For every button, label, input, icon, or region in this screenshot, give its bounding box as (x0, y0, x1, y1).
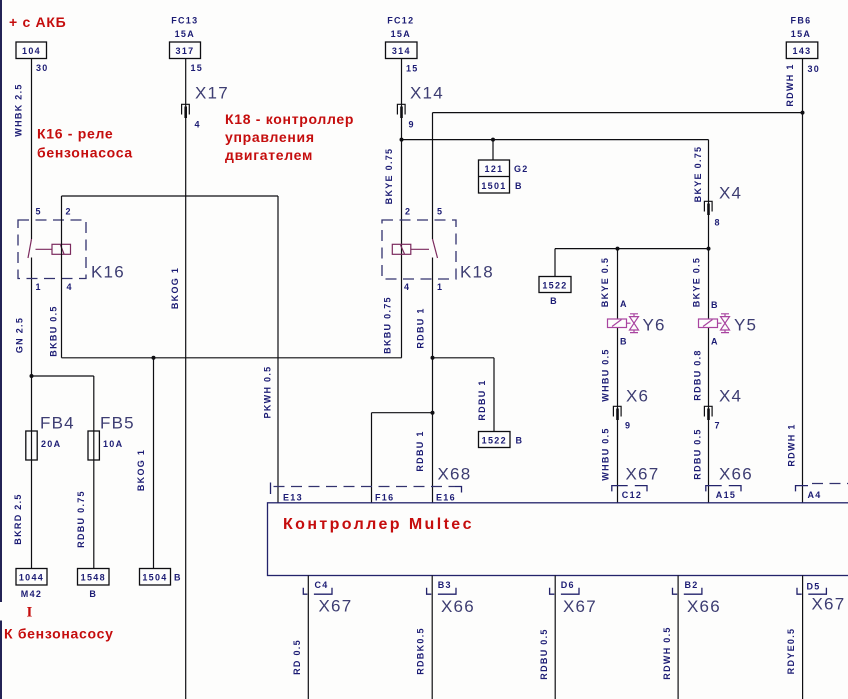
fuse FC13 15A supply box 317 (170, 16, 204, 74)
controller Multec box (268, 503, 848, 576)
svg-text:RDBU 0.5: RDBU 0.5 (693, 428, 703, 479)
svg-text:RDYE0.5: RDYE0.5 (786, 628, 796, 675)
svg-text:E16: E16 (436, 493, 456, 503)
svg-text:B: B (515, 181, 523, 191)
svg-text:A: A (620, 299, 628, 309)
svg-text:F16: F16 (375, 493, 394, 503)
svg-text:WHBU 0.5: WHBU 0.5 (601, 427, 611, 480)
page left border segment upper (0, 0, 2, 602)
pin D6 with wire RDBU 0.5 (539, 576, 597, 699)
junction Y5 branch (707, 247, 711, 251)
svg-text:WHBK 2.5: WHBK 2.5 (14, 83, 24, 136)
svg-text:7: 7 (715, 421, 721, 431)
svg-text:X4: X4 (719, 387, 742, 406)
wire RDBU 1 from K18 pin1 down to Multec E16 (415, 258, 433, 503)
svg-text:B: B (89, 589, 97, 599)
connector X6 (613, 387, 649, 431)
svg-text:G2: G2 (514, 164, 529, 174)
wire horizontal feed to K18 pin5 from RDWH node (433, 112, 803, 114)
svg-text:RDBU 0.8: RDBU 0.8 (693, 349, 703, 400)
junction Y6 branch (616, 247, 620, 251)
svg-text:15A: 15A (791, 29, 811, 39)
wire BKYE 0.75 drop to connector X4 (693, 140, 709, 503)
svg-text:C4: C4 (315, 580, 329, 590)
svg-text:I: I (27, 605, 33, 621)
pin C4 with wire RD 0.5 (292, 576, 352, 699)
svg-text:1: 1 (437, 282, 443, 292)
svg-text:1504: 1504 (142, 573, 167, 583)
svg-text:1548: 1548 (81, 573, 106, 583)
pin D5 with wire RDYE 0.5 (786, 576, 845, 699)
svg-text:RDWH 1: RDWH 1 (785, 63, 795, 106)
junction G2 branch (491, 138, 495, 142)
svg-text:FC13: FC13 (171, 16, 198, 26)
svg-text:RDWH 0.5: RDWH 0.5 (662, 626, 672, 679)
svg-text:BKYE 0.75: BKYE 0.75 (693, 146, 703, 203)
svg-text:BKYE 0.5: BKYE 0.5 (600, 257, 610, 307)
svg-text:К бензонасосу: К бензонасосу (4, 626, 114, 642)
pin A4 (796, 484, 848, 500)
wire horizontal BKYE 0.75 bus at y140 (402, 139, 709, 141)
wire PKWH 0.5 down to Multec E13 (263, 196, 279, 503)
svg-text:4: 4 (67, 282, 73, 292)
fuse FC12 15A supply box 314 (386, 16, 419, 74)
red note K16 relay (37, 126, 133, 161)
connector X14 (397, 84, 443, 130)
svg-text:FB4: FB4 (40, 414, 75, 433)
wire branch to splice 1522 upper (554, 249, 556, 277)
connector X17 (182, 84, 229, 130)
supply box 104 (pin 30) (16, 42, 49, 73)
relay K18 contact blade (433, 239, 438, 258)
svg-text:RDBU 0.5: RDBU 0.5 (539, 628, 549, 679)
svg-text:+ с АКБ: + с АКБ (9, 14, 66, 30)
connector X68 dashed boundary (271, 465, 472, 495)
svg-text:Y6: Y6 (643, 316, 666, 335)
junction X14 wire / bus (400, 138, 404, 142)
svg-text:B: B (711, 300, 719, 310)
svg-text:X66: X66 (719, 465, 753, 484)
pin B3 with wire RDBK 0.5 (416, 576, 475, 699)
svg-text:X66: X66 (441, 597, 475, 616)
svg-text:B: B (550, 296, 558, 306)
fuse FB6 15A supply box 143 (pin 30) (786, 16, 820, 75)
svg-text:1522: 1522 (542, 281, 567, 291)
injector Y6 (608, 299, 666, 347)
pin C12 (612, 486, 647, 500)
svg-text:4: 4 (404, 282, 410, 292)
wire WHBK 2.5 from 104 to relay K16 pin 5 (14, 59, 32, 240)
wire K16 pin 2 to coil / horizontal to PKWH drop (49, 196, 279, 358)
svg-text:RDBU 0.75: RDBU 0.75 (76, 490, 86, 548)
svg-text:RD 0.5: RD 0.5 (292, 639, 302, 675)
wire X14 / BKYE 0.75 vertical from 314 to K18 coil (384, 59, 402, 358)
svg-text:RDBU 1: RDBU 1 (477, 379, 487, 420)
svg-text:30: 30 (808, 64, 821, 74)
wire K18 pin5 drop (432, 113, 434, 239)
svg-text:4: 4 (195, 120, 201, 130)
svg-text:BKBU 0.5: BKBU 0.5 (49, 305, 59, 356)
svg-text:B: B (174, 573, 182, 583)
svg-text:RDWH 1: RDWH 1 (787, 423, 797, 466)
junction RDBU1 / F16 branch (431, 411, 435, 415)
junction RDBU1 / 1522 branch (431, 356, 435, 360)
svg-text:BKYE 0.75: BKYE 0.75 (384, 148, 394, 205)
ground splice box 121 / 1501 (G2) (479, 160, 529, 193)
svg-text:A: A (711, 337, 719, 347)
svg-text:FB6: FB6 (791, 16, 812, 26)
svg-text:PKWH 0.5: PKWH 0.5 (263, 366, 273, 419)
svg-text:WHBU 0.5: WHBU 0.5 (601, 348, 611, 401)
fuse FB5 10A (88, 414, 135, 461)
svg-text:RDBK0.5: RDBK0.5 (416, 627, 426, 675)
svg-text:15A: 15A (391, 29, 411, 39)
svg-text:FB5: FB5 (100, 414, 135, 433)
wire to FB5 (32, 375, 94, 377)
svg-text:X67: X67 (319, 597, 353, 616)
svg-text:C12: C12 (622, 490, 642, 500)
fuse FB4 20A (26, 414, 75, 461)
wire horizontal bus y=357.8 K16 pin4 to K18 pin4 (62, 357, 402, 359)
pin A15 (706, 486, 741, 500)
svg-text:B3: B3 (438, 580, 452, 590)
svg-text:15: 15 (406, 64, 419, 74)
svg-text:X6: X6 (626, 387, 649, 406)
svg-text:E13: E13 (283, 493, 303, 503)
connector X4 upper (704, 184, 742, 228)
wire branch to ground G2 (492, 140, 494, 160)
svg-text:1044: 1044 (19, 573, 44, 583)
svg-text:20A: 20A (41, 439, 61, 449)
splice box 1522 upper (B) (539, 277, 571, 307)
svg-text:2: 2 (66, 207, 72, 217)
relay K16 (18, 207, 125, 293)
relay K18 coil (392, 244, 411, 254)
svg-text:К18 - контроллер: К18 - контроллер (225, 111, 354, 127)
wire BKOG 1 down to splice 1504 (136, 358, 154, 569)
wire branch to splice 1522 (433, 358, 495, 432)
relay K16 coil (52, 244, 71, 254)
svg-text:BKOG 1: BKOG 1 (170, 267, 180, 309)
svg-text:X4: X4 (719, 184, 742, 203)
svg-text:RDBU 1: RDBU 1 (415, 430, 425, 471)
svg-text:двигателем: двигателем (225, 147, 313, 163)
svg-text:121: 121 (485, 164, 504, 174)
svg-text:15A: 15A (175, 29, 195, 39)
svg-text:15: 15 (191, 63, 204, 73)
svg-text:X66: X66 (687, 597, 721, 616)
splice box 1522 lower (B) (479, 432, 524, 448)
svg-text:1501: 1501 (481, 181, 506, 191)
svg-text:X67: X67 (626, 465, 660, 484)
red note K18 controller (225, 111, 354, 163)
svg-text:бензонасоса: бензонасоса (37, 145, 133, 161)
wire injector feed bus y=248.6 (555, 248, 709, 250)
junction to splice 1504 (152, 356, 156, 360)
svg-text:314: 314 (392, 46, 411, 56)
wire BKYE 0.5 to injector Y6 (600, 249, 618, 503)
wire RDWH 1 from 143 down to Multec pin A4 (785, 59, 803, 503)
connector X4 lower (704, 387, 742, 431)
svg-text:FC12: FC12 (387, 16, 414, 26)
svg-text:5: 5 (437, 207, 443, 217)
svg-text:RDBU 1: RDBU 1 (416, 307, 426, 348)
svg-text:104: 104 (22, 46, 41, 56)
injector Y5 (699, 300, 758, 347)
svg-text:M42: M42 (21, 589, 42, 599)
page left border segment lower (0, 621, 2, 699)
svg-text:BKBU 0.75: BKBU 0.75 (383, 296, 393, 354)
svg-text:Контроллер Multec: Контроллер Multec (283, 516, 474, 533)
svg-text:B: B (620, 337, 628, 347)
svg-text:D6: D6 (561, 580, 575, 590)
pin B2 with wire RDWH 0.5 (662, 576, 721, 699)
svg-text:Y5: Y5 (734, 316, 757, 335)
svg-text:D5: D5 (807, 582, 821, 592)
svg-text:9: 9 (409, 120, 415, 130)
svg-text:K18: K18 (460, 263, 494, 282)
svg-text:X67: X67 (563, 597, 597, 616)
splice box 1548 (B) (78, 569, 110, 600)
wire GN 2.5 from K16 pin 1 to fuse node (15, 258, 32, 569)
svg-text:A4: A4 (808, 490, 822, 500)
svg-text:BKYE 0.5: BKYE 0.5 (692, 257, 702, 307)
svg-text:K16: K16 (91, 263, 125, 282)
relay K16 contact blade (28, 239, 32, 258)
svg-text:BKRD 2.5: BKRD 2.5 (13, 493, 23, 544)
svg-text:30: 30 (36, 63, 49, 73)
svg-text:X68: X68 (438, 465, 472, 484)
svg-text:1: 1 (36, 282, 42, 292)
svg-text:A15: A15 (716, 490, 736, 500)
splice box 1504 (B) (140, 569, 182, 586)
relay K18 (382, 207, 494, 293)
node fuse junction (30, 374, 34, 378)
svg-text:5: 5 (36, 207, 42, 217)
svg-text:B2: B2 (685, 580, 699, 590)
svg-text:8: 8 (715, 218, 721, 228)
svg-text:317: 317 (176, 46, 195, 56)
svg-text:X14: X14 (410, 84, 444, 103)
junction RDWH / K18 feed (801, 111, 805, 115)
svg-text:1522: 1522 (482, 436, 507, 446)
splice box 1044 (M42) (16, 569, 47, 600)
svg-text:управления: управления (225, 129, 315, 145)
wire branch to Multec F16 (372, 413, 433, 503)
svg-text:2: 2 (405, 207, 411, 217)
svg-text:BKOG 1: BKOG 1 (136, 449, 146, 491)
wire X17 / BKOG 1 vertical from 317 to page bottom (170, 59, 186, 699)
svg-text:B: B (516, 436, 524, 446)
svg-text:X17: X17 (195, 84, 229, 103)
svg-text:143: 143 (793, 46, 812, 56)
svg-text:9: 9 (625, 421, 631, 431)
svg-text:10A: 10A (103, 439, 123, 449)
svg-text:GN 2.5: GN 2.5 (15, 317, 25, 353)
svg-text:X67: X67 (812, 595, 846, 614)
svg-text:К16 - реле: К16 - реле (37, 126, 113, 142)
